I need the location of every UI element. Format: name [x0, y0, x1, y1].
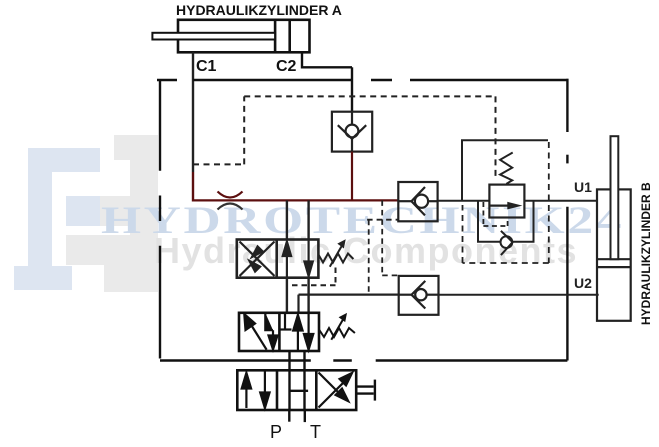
- pilot dashed from S1 port to spring side: [287, 268, 336, 286]
- relief assembly dashed enclosure: [463, 142, 549, 263]
- check valve V3 (pilot operated, U2 path): [399, 276, 439, 315]
- wire U2 branch from S2 top port: [297, 295, 299, 313]
- throttle orifice arcs on main line: [218, 192, 243, 198]
- valve S3 left square down arrow: [260, 370, 269, 408]
- wire V1 bottom to main line (dark red): [351, 152, 353, 202]
- relief valve box: [489, 185, 524, 218]
- valve S2 spring with adjusting arrow: [319, 320, 355, 340]
- main line C1/throttle to V2 (dark red): [193, 199, 398, 201]
- manifold boundary top edge dashes: [157, 79, 569, 81]
- relief assembly top line: [462, 140, 548, 200]
- wire horizontal C1 to V1 line: [193, 79, 352, 81]
- cylinder B piston rod: [611, 136, 619, 259]
- watermark logo left part (blue): [14, 148, 100, 290]
- valve S1 right square up arrow: [283, 242, 291, 278]
- wire C1 lower segment (dark red): [192, 172, 194, 202]
- wire S1 right port down to S2: [307, 278, 309, 313]
- hydraulic cylinder A body: [178, 20, 310, 53]
- wire C2 elbow down/right: [302, 52, 352, 67]
- bypass check valve around relief: [478, 200, 534, 255]
- valve S2 left square jog path with down arrow: [265, 313, 277, 350]
- svg-text:P: P: [270, 422, 282, 442]
- svg-text:C2: C2: [276, 58, 297, 75]
- wire relief valve to cylinder B (U1): [525, 200, 597, 202]
- valve S2 right square down arrow: [304, 313, 313, 350]
- manifold boundary left edge dashes: [159, 80, 161, 359]
- valve S1 right square down arrow: [304, 240, 312, 277]
- pilot dashed line from C1 to relief spring: [193, 96, 496, 178]
- relief valve arrow: [490, 205, 509, 207]
- hydraulic cylinder B body: [597, 189, 631, 320]
- svg-text:C1: C1: [196, 58, 217, 75]
- manifold boundary right edge dashes: [566, 79, 568, 361]
- valve S2 right square up arrow: [293, 315, 302, 351]
- check valve V1 (under C2): [332, 112, 372, 152]
- valve S3 left square up arrow: [242, 373, 251, 408]
- valve S1 body (2-position): [237, 240, 319, 278]
- wire P stub below S3: [288, 410, 290, 422]
- valve S3 right square crossed arrows: [319, 373, 353, 408]
- svg-text:T: T: [310, 422, 321, 442]
- relief valve spring: [500, 153, 513, 184]
- wire T stub below S3: [304, 410, 306, 422]
- wire T through-line S2 to S3: [303, 351, 305, 370]
- wire C2 vertical to check valve V1: [351, 67, 353, 111]
- wire U2 horizontal to check valve V3: [299, 294, 399, 296]
- valve S3 body (3-position): [237, 370, 356, 410]
- wire branch down to valve S1 right port: [307, 200, 309, 239]
- valve S3 plunger actuator: [356, 380, 375, 401]
- valve S1 left square crossed arrows: [240, 242, 275, 277]
- svg-text:U2: U2: [574, 275, 592, 291]
- valve S2 body (2-position): [239, 313, 319, 351]
- wire S1 left port down to S2: [286, 278, 288, 313]
- relief valve internal pilot dashes: [483, 202, 507, 226]
- cylinder A piston rod: [152, 33, 275, 40]
- watermark logo right part (gray): [66, 135, 158, 292]
- wire U2 line V3 to cylinder B: [439, 294, 599, 296]
- check valve V2 (pilot operated, U1 path): [398, 182, 437, 221]
- manifold boundary bottom edge dashes: [160, 359, 567, 361]
- wire C1 down from cylinder: [192, 52, 194, 172]
- svg-text:HYDRAULIKZYLINDER B: HYDRAULIKZYLINDER B: [639, 182, 653, 325]
- valve S2 left square diagonal arrow: [244, 314, 266, 350]
- pilot dashed V2 from U2 line: [367, 220, 398, 295]
- svg-text:U1: U1: [574, 179, 592, 195]
- valve S2 right square blocked port: [281, 313, 292, 330]
- wire main line V2 to relief valve (U1): [438, 200, 490, 202]
- wire P through-line S2 to S3: [288, 351, 290, 370]
- wire branch down to valve S1 left port: [286, 200, 288, 239]
- valve S1 spring with adjusting arrow: [318, 246, 353, 267]
- svg-text:HYDRAULIKZYLINDER A: HYDRAULIKZYLINDER A: [176, 2, 342, 18]
- pilot dashed V3 from U1 line: [382, 200, 399, 275]
- valve S3 centre square P/T lines: [290, 370, 309, 410]
- svg-text:Hydraulic Components: Hydraulic Components: [154, 230, 578, 271]
